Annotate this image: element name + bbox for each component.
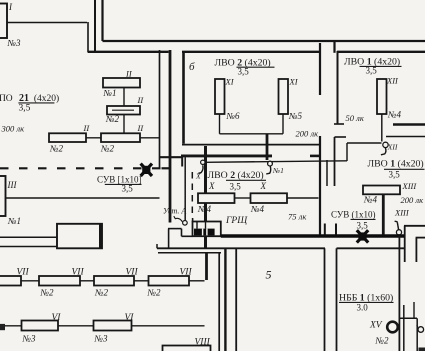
svg-text:3,5: 3,5 (357, 221, 369, 231)
node no1 circle (268, 161, 273, 166)
svg-text:№3: №3 (22, 334, 36, 344)
wall stub below room b wall (181, 156, 183, 167)
wall corridor south thick bar (181, 154, 272, 157)
svg-text:VII: VII (180, 268, 193, 278)
wire XII horizontal (347, 142, 382, 144)
luminaire VII L4 (149, 276, 190, 286)
svg-text:XV: XV (369, 321, 383, 331)
wall top inner face east (337, 51, 425, 53)
svg-text:№2: №2 (94, 288, 108, 298)
svg-text:№2: №2 (100, 144, 114, 154)
svg-text:№3: №3 (94, 334, 108, 344)
wall left vertical face B (94, 0, 96, 52)
wall bottom right vert c (416, 318, 418, 351)
svg-text:№2: №2 (147, 288, 161, 298)
wire X between lums (235, 197, 251, 199)
svg-text:ЛВО 1 (4х20): ЛВО 1 (4х20) (368, 159, 424, 170)
node XII hook (381, 148, 386, 155)
wall right mid west face upper (319, 43, 321, 95)
wall corridor east face (169, 50, 172, 223)
podium rect right edge (99, 224, 102, 249)
svg-text:№3: №3 (7, 38, 21, 48)
wire XI horizontal (220, 133, 284, 135)
svg-text:ГРЩ: ГРЩ (225, 216, 248, 226)
node X hook (198, 165, 203, 173)
wall niche step vert (181, 229, 183, 237)
svg-text:300 лк: 300 лк (1, 124, 26, 134)
wall stub top right bay (333, 42, 335, 53)
wall corridor west face (159, 50, 161, 168)
luminaire XII no4 top (377, 79, 387, 114)
svg-text:№2: №2 (49, 144, 63, 154)
svg-text:XII: XII (386, 76, 399, 86)
svg-text:№4: №4 (363, 195, 377, 205)
wall door jamb east of bus (335, 224, 337, 237)
wire XII drop (381, 114, 383, 142)
switch XIII circle (396, 230, 401, 235)
svg-text:VI: VI (52, 313, 62, 323)
luminaire VI L1 (22, 321, 59, 331)
svg-text:200 лк: 200 лк (296, 129, 320, 139)
box symbol X left (141, 164, 152, 176)
svg-text:5: 5 (266, 268, 272, 282)
node X circle (201, 160, 205, 164)
svg-text:VIII: VIII (195, 338, 211, 348)
GRShch panel fill (194, 229, 215, 236)
node no1 hook (266, 166, 271, 174)
svg-text:3,5: 3,5 (366, 66, 378, 76)
svg-text:X: X (260, 181, 267, 191)
GRShch panel divider1 (202, 229, 204, 236)
wall corner tick room right (335, 136, 347, 138)
luminaire X no4 right (251, 193, 288, 203)
svg-text:№5: №5 (288, 111, 302, 121)
wall top inner face mid (182, 51, 320, 53)
box symbol X right (357, 230, 368, 242)
luminaire XI no5 (279, 79, 289, 114)
wire XII corner vertical (346, 143, 348, 161)
luminaire VII L2 (39, 276, 80, 286)
wall right col vert2 (415, 238, 417, 262)
wall right mid inner stub (326, 160, 328, 186)
wall bottom right vert a (403, 305, 405, 351)
svg-text:X: X (208, 181, 215, 191)
wire VII seg2 (134, 280, 149, 282)
svg-text:X: X (195, 172, 201, 181)
svg-text:XII: XII (387, 143, 398, 152)
svg-text:3,5: 3,5 (389, 170, 401, 180)
wall niche bottom (182, 235, 193, 237)
wire VII seg0 (21, 280, 39, 282)
wall right col top face (404, 225, 425, 227)
wire XIV down (398, 236, 400, 351)
luminaire I no3 (0, 4, 7, 39)
wall room5 right (324, 248, 326, 351)
wall right col vert main (404, 226, 406, 262)
wire VI seg0 (0, 325, 22, 327)
svg-text:200 лк: 200 лк (401, 195, 425, 205)
bar LVO2 top (237, 66, 275, 68)
luminaire VI L2 (94, 321, 132, 331)
wire into panel (192, 218, 194, 222)
wire XI left drop (219, 114, 221, 134)
svg-text:б: б (189, 61, 195, 73)
wall room b left (182, 51, 185, 144)
luminaire II no2 left (49, 133, 86, 142)
wall lvo1 bottom face (393, 123, 425, 125)
wall bottom right horiz (400, 317, 418, 319)
wall tick south-west (156, 244, 158, 248)
wire VII seg1 (80, 280, 94, 282)
svg-text:№2: №2 (105, 114, 119, 124)
luminaire III no1 (0, 176, 6, 216)
luminaire II no2 bottom (101, 133, 140, 142)
GRShch panel divider2 (206, 229, 208, 236)
svg-text:№2: №2 (40, 288, 54, 298)
svg-text:XIII: XIII (394, 208, 410, 218)
luminaire VI stub edge (0, 324, 5, 330)
dashed line SUV last dash (162, 167, 171, 169)
svg-text:II: II (83, 123, 91, 133)
switch UstA hook (174, 216, 183, 222)
luminaire II no2 mid centerline (112, 109, 134, 111)
wire II horizontal left (86, 137, 103, 139)
svg-text:№6: №6 (226, 111, 240, 121)
svg-text:VI: VI (125, 313, 135, 323)
bus heavy line (221, 234, 405, 237)
svg-text:II: II (137, 123, 145, 133)
svg-text:Уст. А: Уст. А (163, 207, 186, 216)
wire XI right drop (282, 114, 284, 134)
wall lvo1 room left (337, 51, 339, 124)
svg-text:СУВ (1х10): СУВ (1х10) (331, 210, 376, 220)
wall lvo1 end cap (334, 123, 344, 125)
svg-text:№2: №2 (375, 336, 389, 346)
wire I (7, 22, 87, 24)
svg-text:50 лк: 50 лк (346, 113, 365, 123)
svg-text:3.0: 3.0 (357, 303, 369, 313)
svg-text:СУВ [1х10]: СУВ [1х10] (97, 175, 142, 185)
wall lvo1 bottom inner face (386, 136, 425, 138)
wall nbb room left (336, 248, 338, 351)
wall room5 west face (224, 248, 226, 351)
svg-text:№4: №4 (197, 204, 211, 214)
wall right mid east face (334, 137, 336, 186)
wall niche left vert (168, 229, 170, 249)
wall room5 left (235, 248, 237, 351)
wire tick panel (196, 222, 198, 229)
wire VI seg2 (132, 325, 205, 327)
wall left vertical face C (101, 0, 103, 41)
wall main south vertical (204, 146, 207, 248)
wall right mid west face lower (319, 136, 321, 236)
podium line upper (0, 236, 57, 238)
svg-text:№1: №1 (272, 166, 284, 175)
bar LVO1 top (360, 65, 402, 67)
wire X horizontal run (205, 161, 347, 163)
wire VII seg3 (189, 280, 205, 282)
wire X to wall (287, 197, 319, 199)
luminaire VIII (163, 346, 211, 351)
luminaire XIII no4 (363, 186, 400, 195)
wall pier below corridor (205, 253, 208, 280)
wall uchA vertical (184, 157, 186, 220)
dashed drop to panel (191, 172, 193, 218)
wall bottom right vert b (413, 302, 415, 318)
switch XIII lever (395, 221, 399, 230)
bar LVO1 mid (384, 168, 425, 170)
wall nbb room top (337, 247, 405, 249)
svg-text:3,5: 3,5 (238, 66, 250, 76)
wall left vertical face A (87, 22, 89, 53)
svg-text:XIII: XIII (402, 181, 418, 191)
svg-text:XI: XI (225, 77, 235, 87)
wire III (6, 197, 160, 199)
svg-text:III: III (7, 180, 18, 190)
wall door jamb west of bus (324, 224, 326, 237)
svg-text:75 лк: 75 лк (288, 212, 307, 222)
wall room5 outer west face (218, 253, 220, 351)
wire II horizontal right (140, 137, 159, 139)
wire II stack connector lower (123, 115, 125, 134)
bar SUV left (105, 183, 142, 185)
lamp XV circle (387, 322, 398, 333)
lamp right col tick (417, 326, 419, 327)
svg-text:3,5: 3,5 (230, 182, 242, 192)
podium rect (57, 224, 102, 249)
GRShch panel outline (193, 222, 221, 237)
switch UstA circle (183, 221, 188, 226)
luminaire XI no6 (215, 79, 225, 114)
svg-text:II: II (125, 68, 133, 78)
wire II stack connector upper (123, 88, 125, 107)
wall top outer face (103, 40, 425, 42)
wire XI thick drop to node (266, 134, 269, 160)
wall corridor bottom (160, 156, 184, 158)
wall room b bottom upper face (182, 144, 320, 146)
bar LPO21 (18, 102, 54, 104)
svg-text:XI: XI (289, 77, 299, 87)
door corner black bottom right (419, 348, 425, 351)
luminaire II no1 (103, 78, 140, 88)
dashed line SUV (0, 167, 161, 169)
wall corridor south face (157, 247, 325, 249)
luminaire VII L1 (0, 276, 21, 286)
luminaire X no4 left (198, 193, 235, 203)
wall niche step top (168, 228, 182, 230)
bar NBB (339, 301, 394, 303)
svg-text:II: II (137, 95, 145, 105)
svg-text:3,5: 3,5 (19, 104, 31, 114)
luminaire II no2 mid (107, 106, 140, 115)
svg-text:№4: №4 (387, 110, 401, 120)
svg-text:№1: №1 (7, 216, 21, 226)
wall top inner face west (88, 51, 169, 53)
svg-text:№4: №4 (250, 204, 264, 214)
bar LVO2 mid (226, 179, 266, 181)
svg-text:3,5: 3,5 (122, 184, 134, 194)
wire XIII thick drop (382, 194, 385, 235)
wall right col face2 (416, 237, 425, 239)
podium line lower (0, 246, 57, 248)
svg-text:№1: №1 (103, 88, 117, 98)
svg-text:VII: VII (72, 268, 85, 278)
bar SUV right (351, 218, 376, 220)
wall door jamb lower (310, 155, 321, 158)
wire lum to panel (205, 204, 207, 229)
luminaire VII L3 (94, 276, 134, 286)
lamp right col circle (418, 327, 424, 333)
svg-text:ЛВО 2 (4х20): ЛВО 2 (4х20) (208, 170, 264, 181)
wire VI seg1 (58, 325, 94, 327)
svg-text:VII: VII (17, 268, 30, 278)
svg-text:VII: VII (126, 268, 139, 278)
node XII circle (383, 142, 388, 147)
wall corridor south face2 (158, 252, 221, 254)
